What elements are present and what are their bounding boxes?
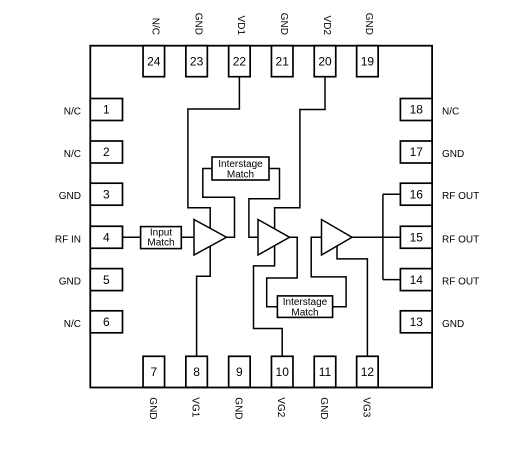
pin 8: [186, 356, 208, 387]
svg-text:20: 20: [318, 54, 332, 68]
wire VG3 from A3 to pin 12: [337, 246, 367, 356]
svg-text:9: 9: [236, 365, 243, 379]
input match block: [141, 227, 182, 249]
wire A1 output to interstage match 1: [203, 169, 235, 238]
svg-text:5: 5: [103, 273, 110, 287]
wire bus stub to pin 14: [383, 279, 401, 281]
svg-text:VG3: VG3: [360, 397, 371, 417]
amplifier A2 (stage 2): [258, 220, 290, 256]
svg-text:VD2: VD2: [321, 16, 332, 36]
pin 13: [400, 311, 432, 333]
wire input match to amp A1: [181, 236, 194, 238]
svg-text:12: 12: [361, 365, 375, 379]
svg-text:2: 2: [103, 145, 110, 159]
pin 4: [90, 226, 122, 248]
svg-text:VG1: VG1: [190, 397, 201, 417]
svg-text:N/C: N/C: [150, 18, 161, 35]
pin 17: [400, 141, 432, 163]
svg-text:Interstage: Interstage: [218, 159, 263, 170]
svg-text:15: 15: [410, 230, 424, 244]
interstage match 2 block: [277, 296, 332, 319]
svg-text:N/C: N/C: [64, 319, 81, 330]
wire VD2 feed from pin 20 to A2 drain: [275, 77, 325, 229]
pin 2: [90, 141, 122, 163]
svg-text:GND: GND: [59, 277, 81, 288]
svg-text:Match: Match: [291, 307, 318, 318]
pin 3: [90, 183, 122, 205]
svg-text:N/C: N/C: [64, 149, 81, 160]
pin 6: [90, 311, 122, 333]
svg-text:GND: GND: [232, 397, 243, 419]
svg-text:N/C: N/C: [64, 107, 81, 118]
pin 14: [400, 269, 432, 291]
wire A2 output to interstage match 2: [267, 237, 298, 306]
svg-text:21: 21: [276, 54, 290, 68]
svg-text:Match: Match: [227, 169, 254, 180]
svg-text:GND: GND: [192, 13, 203, 35]
wire A3 output to pin 15: [352, 236, 400, 238]
wire bus stub to pin 16: [383, 193, 401, 195]
svg-text:6: 6: [103, 315, 110, 329]
svg-text:VD1: VD1: [235, 16, 246, 36]
pin 23: [186, 46, 208, 77]
wire RF OUT bus vertical: [382, 194, 384, 279]
svg-text:Match: Match: [147, 238, 174, 249]
svg-text:14: 14: [410, 273, 424, 287]
svg-text:13: 13: [410, 315, 424, 329]
interstage match 1 block: [212, 157, 269, 180]
svg-text:GND: GND: [59, 191, 81, 202]
svg-text:GND: GND: [147, 397, 158, 419]
amplifier A1 (stage 1): [194, 220, 227, 256]
pin 20: [314, 46, 336, 77]
svg-text:GND: GND: [318, 397, 329, 419]
svg-text:19: 19: [361, 54, 375, 68]
package outline: [90, 46, 432, 388]
svg-text:17: 17: [410, 145, 424, 159]
svg-text:VG2: VG2: [275, 397, 286, 417]
pin 21: [271, 46, 293, 77]
svg-text:N/C: N/C: [442, 107, 459, 118]
pin 16: [400, 183, 432, 205]
pin 5: [90, 269, 122, 291]
svg-text:RF IN: RF IN: [55, 234, 81, 245]
amplifier A3 (stage 3): [322, 220, 353, 256]
pin 12: [357, 356, 379, 387]
svg-text:7: 7: [150, 365, 157, 379]
wire VD1 feed from pin 22 to A1 drain: [188, 77, 240, 229]
svg-text:18: 18: [410, 103, 424, 117]
pin 10: [271, 356, 293, 387]
pin 19: [357, 46, 379, 77]
svg-text:GND: GND: [363, 13, 374, 35]
svg-text:GND: GND: [442, 319, 464, 330]
pin 15: [400, 226, 432, 248]
pin 11: [314, 356, 336, 387]
svg-text:11: 11: [319, 365, 332, 379]
svg-text:23: 23: [190, 54, 204, 68]
pin 22: [229, 46, 251, 77]
pin 18: [400, 99, 432, 121]
pin 7: [143, 356, 165, 387]
wire interstage match 2 to A3 input: [311, 237, 346, 306]
wire interstage match 1 to A2 input: [249, 169, 280, 238]
pin 1: [90, 99, 122, 121]
wire pin4 to input match: [123, 236, 141, 238]
pin 9: [229, 356, 251, 387]
svg-text:22: 22: [233, 54, 247, 68]
wire VG1 from A1 to pin 8: [197, 246, 211, 356]
svg-text:10: 10: [276, 365, 290, 379]
svg-text:24: 24: [147, 54, 161, 68]
svg-text:RF OUT: RF OUT: [442, 277, 479, 288]
svg-text:RF OUT: RF OUT: [442, 191, 479, 202]
svg-text:1: 1: [103, 103, 110, 117]
svg-text:4: 4: [103, 230, 110, 244]
svg-text:GND: GND: [278, 13, 289, 35]
svg-text:RF OUT: RF OUT: [442, 234, 479, 245]
svg-text:16: 16: [410, 187, 424, 201]
pin 24: [143, 46, 165, 77]
svg-text:8: 8: [193, 365, 200, 379]
wire VG2 from A2 to pin 10: [254, 246, 283, 357]
svg-text:GND: GND: [442, 149, 464, 160]
svg-text:3: 3: [103, 187, 110, 201]
svg-text:Interstage: Interstage: [283, 297, 328, 308]
